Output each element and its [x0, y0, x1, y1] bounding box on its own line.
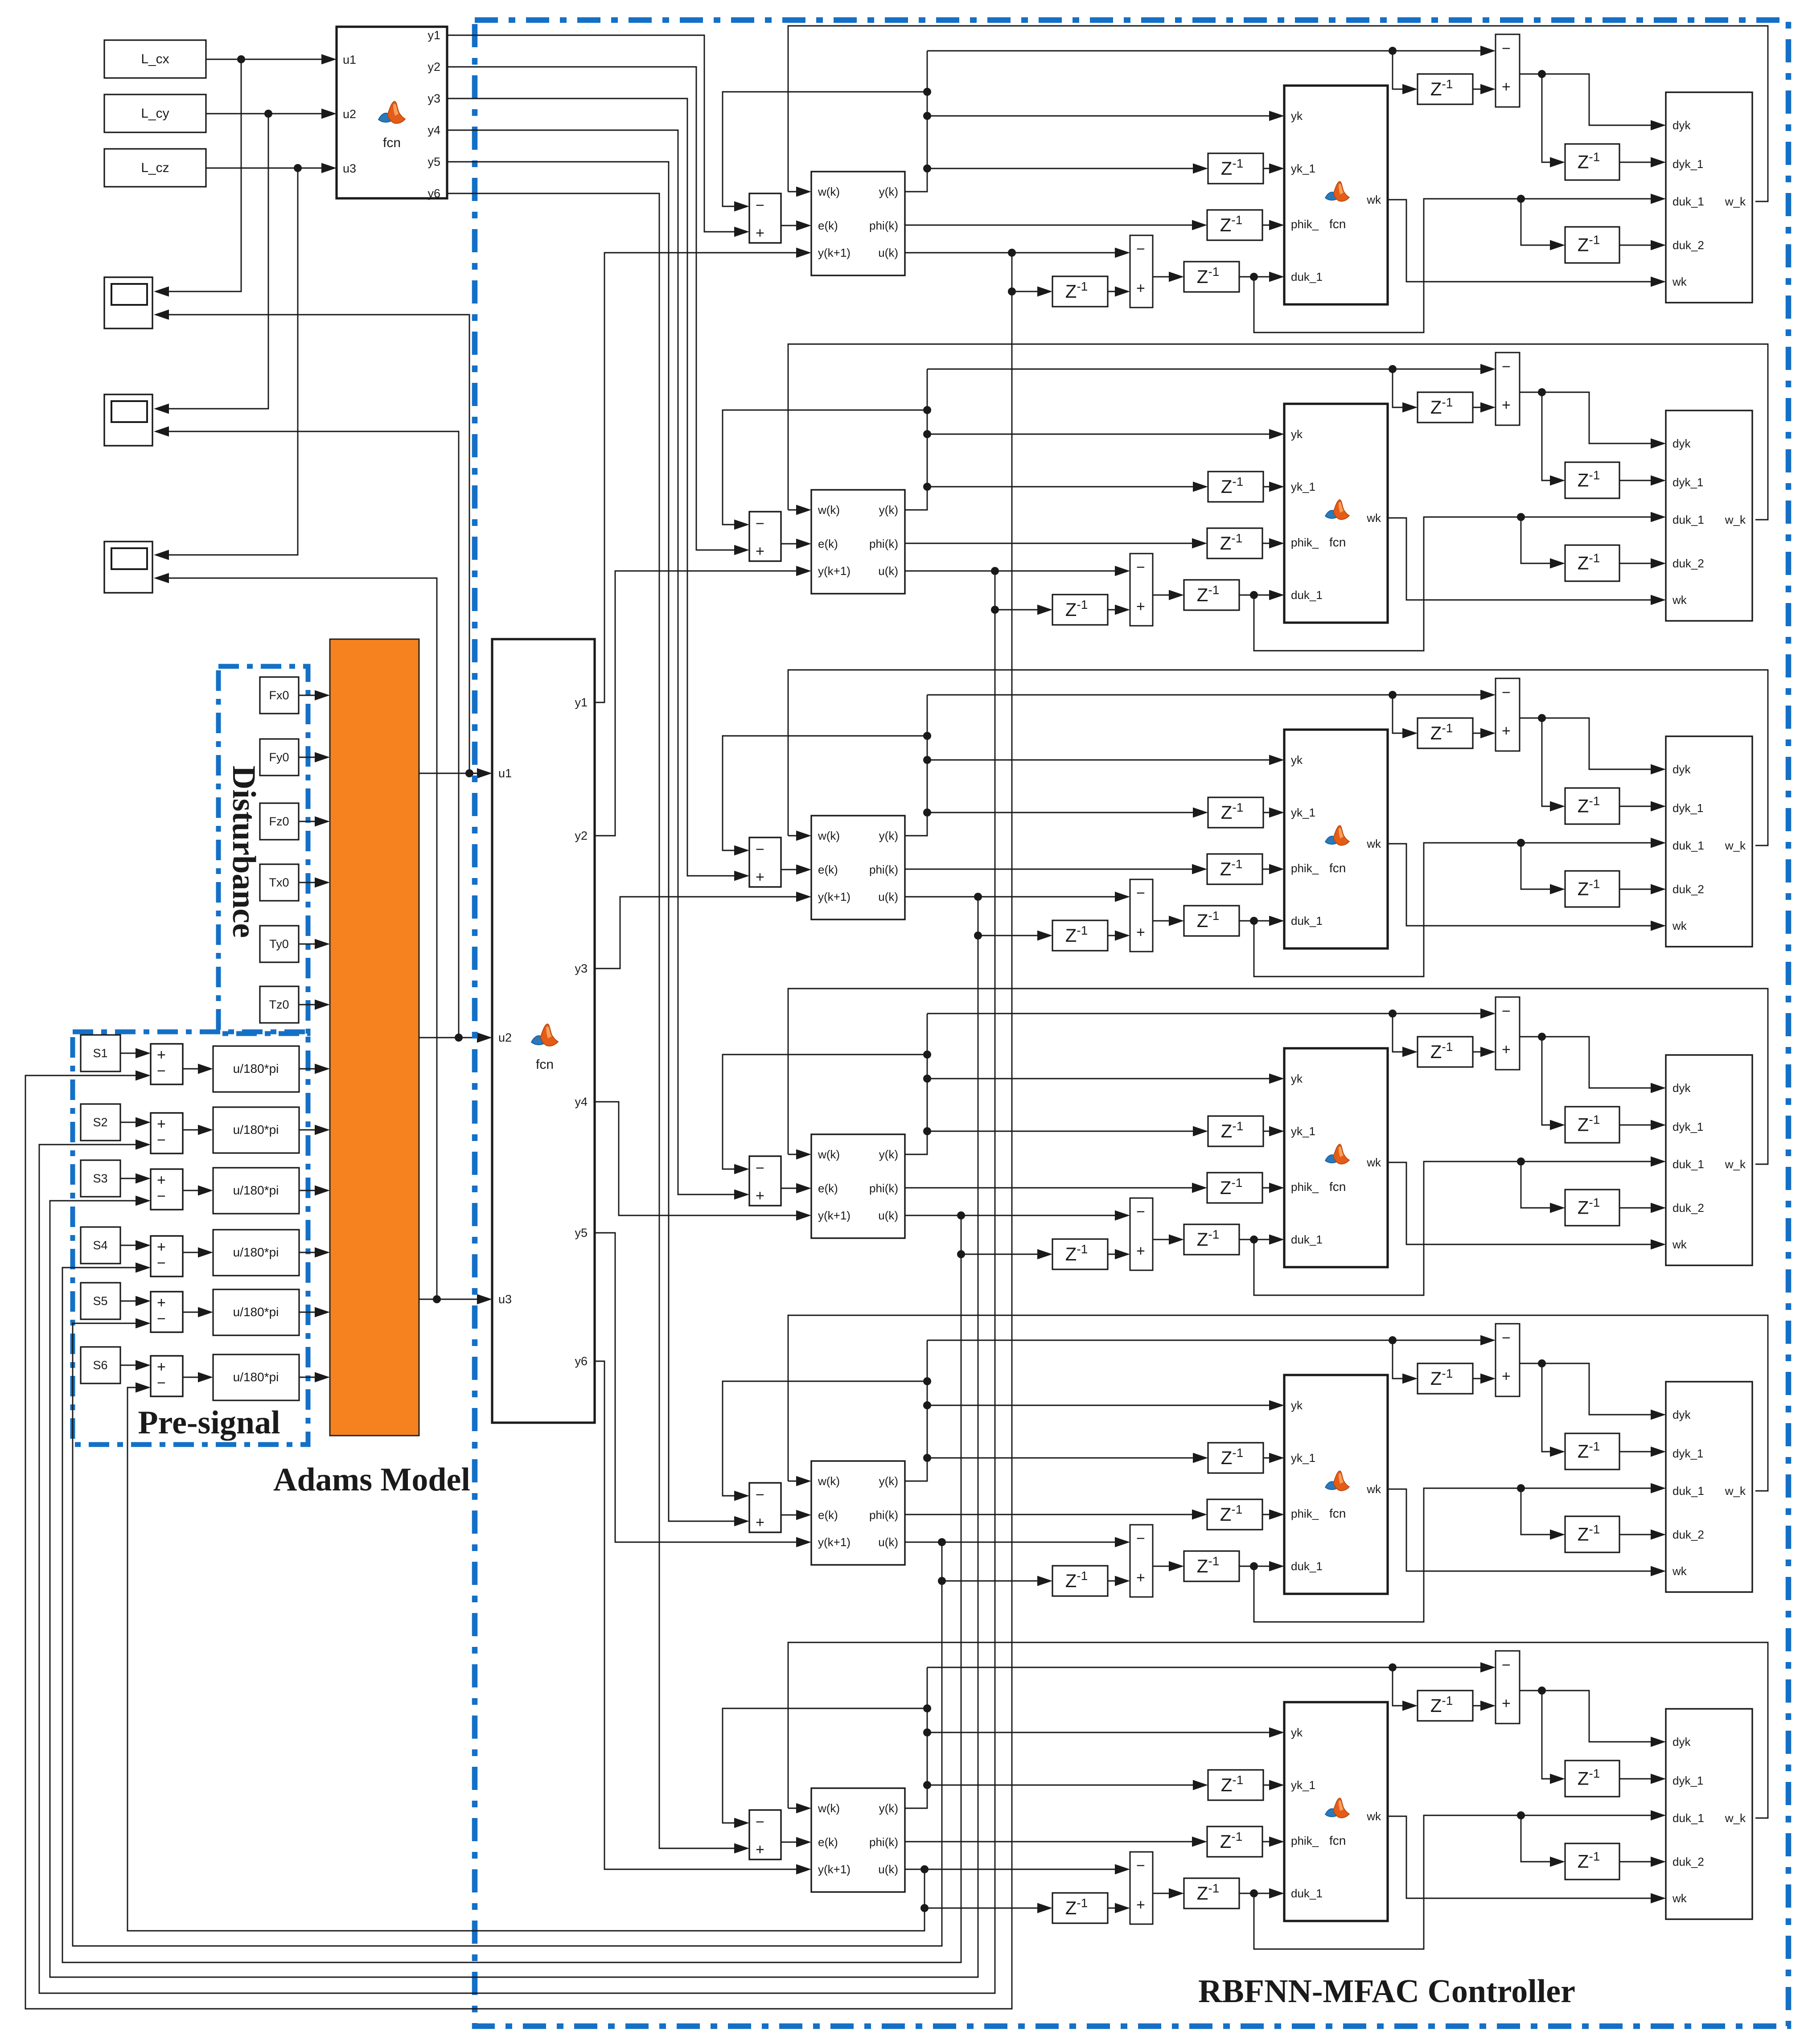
svg-text:dyk: dyk: [1673, 1081, 1691, 1095]
sum block row 1 dy: [1496, 34, 1520, 107]
svg-text:+: +: [1502, 78, 1511, 95]
junction row 1 u delay tap: [1008, 287, 1016, 296]
wire row 2 duk_2 delay to w_k: [1619, 563, 1663, 564]
svg-text:e(k): e(k): [818, 1835, 838, 1849]
svg-text:u(k): u(k): [878, 564, 898, 578]
svg-text:−: −: [756, 197, 764, 214]
svg-text:wk: wk: [1672, 1892, 1687, 1905]
wire row 3 y(k) to yk_1 delay: [927, 812, 1205, 813]
wire fcn1 y6 reference to row 6 sum +: [447, 193, 746, 1848]
delay block Z-1 row 2 (dyk_1): [1565, 462, 1619, 498]
svg-text:−: −: [1136, 1530, 1145, 1547]
svg-text:u1: u1: [498, 767, 512, 780]
wire row 1 delayed to top sum plus: [1393, 51, 1414, 89]
svg-text:duk_1: duk_1: [1291, 1233, 1323, 1246]
wire sum to gain S2: [183, 1129, 210, 1131]
wire row 1 u delay to du sum plus: [1108, 291, 1127, 292]
scope block Scope1: [104, 277, 152, 328]
RBFNN block phik_fcn row 3: [1284, 730, 1388, 948]
wire row 4 dy to dyk_1 delay: [1542, 1037, 1562, 1125]
wire row 1 duk_2 delay to w_k: [1619, 245, 1663, 246]
svg-text:−: −: [1136, 559, 1145, 576]
sum block row 5 error: [749, 1483, 781, 1532]
svg-text:phik_: phik_: [1291, 1834, 1319, 1847]
wire row 2 error to e(k): [781, 543, 808, 545]
junction row 1 yk tap: [923, 112, 931, 120]
wire row 3 y(k) to top sum minus: [927, 694, 1492, 696]
junction row 1 duk_1 tap: [1250, 273, 1258, 281]
junction on L_cz wire: [294, 164, 302, 172]
delay block Z-1 row 3 (u delay): [1052, 920, 1108, 951]
wire S3 to sum: [120, 1178, 148, 1179]
wire sum to gain S1: [183, 1068, 210, 1070]
scope block Scope3: [104, 542, 152, 593]
junction row 6 duk_2 tap: [1517, 1811, 1525, 1819]
wire gain S6 to Adams model: [299, 1377, 327, 1378]
svg-text:u(k): u(k): [878, 890, 898, 903]
wire S6 to sum: [120, 1365, 148, 1366]
svg-text:−: −: [1502, 684, 1511, 701]
svg-text:−: −: [1136, 1857, 1145, 1874]
svg-text:w_k: w_k: [1725, 1484, 1746, 1498]
wire L_cx to u1: [206, 59, 333, 60]
svg-text:wk: wk: [1672, 593, 1687, 607]
svg-text:y(k): y(k): [879, 829, 898, 842]
svg-text:−: −: [756, 1814, 764, 1831]
constant block Fx0: [260, 677, 299, 714]
svg-text:y2: y2: [427, 60, 440, 74]
svg-text:y5: y5: [575, 1226, 588, 1240]
MFAC block row 6: [811, 1788, 905, 1892]
wire row 2 y(k) to phik yk input: [927, 434, 1281, 435]
phik_fcn MATLAB logo row 3: [1325, 825, 1349, 846]
svg-text:S2: S2: [93, 1116, 107, 1129]
svg-text:fcn: fcn: [1329, 1506, 1346, 1520]
svg-text:+: +: [1502, 1368, 1511, 1385]
wire row 4 du to w_k duk_1: [1254, 1162, 1663, 1295]
MFAC block row 1: [811, 172, 905, 275]
junction row 4 duk_1 tap: [1250, 1235, 1258, 1244]
svg-text:−: −: [157, 1132, 166, 1149]
wire row 4 u(k) to du sum minus: [905, 1215, 1127, 1216]
junction row 2 duk_2 tap: [1517, 513, 1525, 521]
svg-text:Tx0: Tx0: [269, 876, 289, 889]
svg-text:y4: y4: [427, 123, 440, 137]
junction row 6 y(k) minus tap: [923, 1704, 931, 1712]
wire row 2 dy to dyk_1 delay: [1542, 392, 1562, 480]
svg-text:phik_: phik_: [1291, 536, 1319, 549]
weight update block w_k row 2: [1666, 410, 1752, 621]
junction row 3 y(k) minus tap: [923, 732, 931, 740]
svg-text:fcn: fcn: [383, 135, 401, 150]
svg-text:u/180*pi: u/180*pi: [233, 1370, 279, 1384]
delay block Z-1 row 6 (duk_2): [1565, 1843, 1619, 1880]
constant block S1: [81, 1035, 120, 1071]
wire gain S3 to Adams model: [299, 1190, 327, 1191]
delay block Z-1 row 1 (dyk_1): [1565, 144, 1619, 180]
svg-text:L_cz: L_cz: [141, 160, 169, 175]
wire fcn1 y3 reference to row 3 sum +: [447, 99, 746, 876]
wire row 6 phi delay to phik input: [1262, 1841, 1281, 1843]
delay block Z-1 row 4 (du delay): [1184, 1224, 1239, 1255]
wire row 6 y(k) to phik yk input: [927, 1732, 1281, 1733]
svg-text:e(k): e(k): [818, 219, 838, 232]
wire row 5 yk_1 delay to phik: [1263, 1457, 1281, 1459]
delay block Z-1 row 5 (y delay top): [1418, 1363, 1473, 1394]
wire row 6 y(k) to yk_1 delay: [927, 1785, 1205, 1786]
junction row 3 yk tap: [923, 756, 931, 764]
wire row 5 y(k) feedback riser: [905, 1340, 927, 1481]
svg-text:Fy0: Fy0: [269, 751, 289, 764]
svg-text:yk_1: yk_1: [1291, 1778, 1315, 1792]
delay block Z-1 row 5 (phi): [1207, 1499, 1262, 1530]
delay block Z-1 row 3 (yk_1): [1208, 797, 1263, 828]
junction row 1 u(k) bus tap: [1008, 249, 1016, 257]
svg-text:y(k): y(k): [879, 1802, 898, 1815]
wire L_cx tap to Scope1: [157, 59, 241, 291]
svg-text:y(k): y(k): [879, 1148, 898, 1161]
MFAC block row 2: [811, 490, 905, 594]
junction row 2 u(k) bus tap: [991, 567, 999, 575]
sum block for S3: [151, 1169, 183, 1210]
wire Tz0 to Adams model: [299, 1004, 327, 1006]
wire row 1 dyk_1 delay to w_k: [1619, 162, 1663, 163]
delay block Z-1 row 1 (duk_2): [1565, 227, 1619, 263]
svg-text:y6: y6: [575, 1354, 588, 1368]
junction row 4 dy tap: [1538, 1033, 1546, 1041]
svg-text:duk_1: duk_1: [1673, 195, 1704, 208]
wire Adams u1 to fcn2: [419, 773, 489, 774]
svg-text:+: +: [157, 1047, 166, 1063]
delay block Z-1 row 4 (yk_1): [1208, 1116, 1263, 1146]
svg-text:fcn: fcn: [1329, 1834, 1346, 1847]
wire row 6 delayed to top sum plus: [1393, 1667, 1414, 1706]
delay block Z-1 row 4 (dyk_1): [1565, 1107, 1619, 1143]
delay block Z-1 row 2 (phi): [1207, 528, 1262, 558]
svg-text:fcn: fcn: [536, 1057, 554, 1072]
junction row 6 u(k) bus tap: [920, 1865, 929, 1873]
sum block for S2: [151, 1113, 183, 1153]
gain block u/180*pi for S1: [213, 1046, 299, 1092]
wire row 6 u(k) to du sum minus: [905, 1869, 1127, 1870]
svg-text:S3: S3: [93, 1172, 107, 1185]
wire row 4 w_k feedback loop: [788, 989, 1768, 1164]
svg-text:u/180*pi: u/180*pi: [233, 1305, 279, 1319]
wire row 6 phik wk to w_k wk: [1388, 1816, 1663, 1898]
wire row 3 dy to dyk: [1542, 718, 1663, 769]
wire row 5 u(k) to u delay: [942, 1542, 1049, 1581]
wire row 4 phi(k) to delay: [905, 1187, 1204, 1189]
wire row 2 dy to dyk: [1542, 392, 1663, 443]
wire row 2 y(k) feedback riser: [905, 369, 927, 510]
sum block row 5 du: [1130, 1525, 1153, 1597]
sum block row 5 dy: [1496, 1324, 1520, 1396]
svg-text:y(k+1): y(k+1): [818, 1863, 851, 1876]
svg-text:fcn: fcn: [1329, 861, 1346, 875]
svg-text:duk_2: duk_2: [1673, 557, 1704, 570]
wire row 1 phi(k) to delay: [905, 225, 1204, 226]
wire sum to gain S4: [183, 1252, 210, 1253]
svg-text:+: +: [1136, 924, 1145, 941]
wire fcn1 y4 reference to row 4 sum +: [447, 130, 746, 1194]
wire row 1 y(k) feedback riser: [905, 51, 927, 192]
wire row 6 phi(k) to delay: [905, 1841, 1204, 1843]
MFAC block row 4: [811, 1134, 905, 1238]
wire row 4 phik wk to w_k wk: [1388, 1162, 1663, 1244]
wire row 2 dyk_1 delay to w_k: [1619, 480, 1663, 481]
wire row 5 y(k) to error sum minus: [723, 1381, 927, 1496]
svg-text:w(k): w(k): [818, 503, 840, 517]
wire row 6 dyk_1 delay to w_k: [1619, 1778, 1663, 1780]
svg-text:−: −: [756, 515, 764, 532]
delay block Z-1 row 1 (du delay): [1184, 262, 1239, 292]
wire L_cz tap to Scope3: [157, 168, 298, 555]
junction row 3 top sum tap: [1389, 691, 1397, 699]
weight update block w_k row 3: [1666, 736, 1752, 947]
delay block Z-1 row 4 (y delay top): [1418, 1037, 1473, 1067]
delay block Z-1 row 3 (du delay): [1184, 906, 1239, 936]
junction row 4 y(k) minus tap: [923, 1051, 931, 1059]
RBFNN block phik_fcn row 4: [1284, 1048, 1388, 1267]
delay block Z-1 row 2 (du delay): [1184, 580, 1239, 610]
svg-text:+: +: [756, 869, 764, 886]
weight update block w_k row 1: [1666, 92, 1752, 303]
svg-text:u/180*pi: u/180*pi: [233, 1183, 279, 1197]
wire row 6 u delay to du sum plus: [1108, 1908, 1127, 1909]
wire fcn2 y4 to row 4 y(k+1): [595, 1102, 808, 1215]
sum block row 6 du: [1130, 1852, 1153, 1924]
delay block Z-1 row 2 (duk_2): [1565, 545, 1619, 581]
wire row 3 error to e(k): [781, 869, 808, 870]
svg-text:−: −: [157, 1310, 166, 1327]
svg-text:dyk_1: dyk_1: [1673, 1120, 1703, 1133]
svg-text:yk: yk: [1291, 427, 1303, 441]
svg-text:Ty0: Ty0: [269, 937, 289, 951]
delay block Z-1 row 5 (u delay): [1052, 1566, 1108, 1596]
wire row 6 yk_1 delay to phik: [1263, 1785, 1281, 1786]
junction row 6 top sum tap: [1389, 1663, 1397, 1671]
wire row 3 du to w_k duk_1: [1254, 843, 1663, 977]
svg-text:phik_: phik_: [1291, 218, 1319, 231]
svg-text:y3: y3: [427, 92, 440, 105]
wire row 5 w_k feedback loop: [788, 1315, 1768, 1491]
sum block for S1: [151, 1044, 183, 1084]
svg-text:e(k): e(k): [818, 1508, 838, 1522]
wire row 5 dyk_1 delay to w_k: [1619, 1451, 1663, 1453]
wire row 4 error to e(k): [781, 1188, 808, 1189]
svg-text:y4: y4: [575, 1095, 588, 1108]
svg-text:u(k): u(k): [878, 1209, 898, 1222]
weight update block w_k row 6: [1666, 1709, 1752, 1919]
wire row 6 y(k) to error sum minus: [723, 1708, 927, 1823]
wire row 5 du sum to delay: [1153, 1566, 1181, 1567]
svg-text:u2: u2: [498, 1031, 512, 1044]
wire row 2 phik wk to w_k wk: [1388, 518, 1663, 600]
wire row 6 dy to dyk_1 delay: [1542, 1691, 1562, 1779]
svg-text:duk_1: duk_1: [1673, 1157, 1704, 1171]
wire row 6 du to w_k duk_1: [1254, 1815, 1663, 1949]
wire row 1 u(k) to u delay: [1012, 253, 1049, 291]
svg-text:Disturbance: Disturbance: [226, 766, 262, 938]
svg-text:+: +: [157, 1239, 166, 1256]
svg-text:−: −: [1502, 358, 1511, 375]
svg-text:dyk_1: dyk_1: [1673, 1774, 1703, 1787]
wire u3 feedback to Scope3: [157, 578, 437, 1299]
svg-text:fcn: fcn: [1329, 1180, 1346, 1194]
svg-text:y(k): y(k): [879, 1474, 898, 1488]
wire row 2 phi(k) to delay: [905, 543, 1204, 544]
wire row 3 y(k) feedback riser: [905, 695, 927, 836]
svg-text:w(k): w(k): [818, 1148, 840, 1161]
sum block row 6 error: [749, 1810, 781, 1859]
svg-text:wk: wk: [1366, 837, 1381, 850]
svg-text:phi(k): phi(k): [869, 219, 898, 232]
sum block row 1 du: [1130, 235, 1153, 308]
delay block Z-1 row 2 (yk_1): [1208, 472, 1263, 502]
wire Fy0 to Adams model: [299, 757, 327, 758]
svg-text:duk_1: duk_1: [1291, 270, 1323, 283]
svg-text:phik_: phik_: [1291, 862, 1319, 875]
delay block Z-1 row 5 (duk_2): [1565, 1516, 1619, 1552]
wire row 2 Z-1 to top sum plus: [1473, 407, 1492, 408]
svg-text:duk_2: duk_2: [1673, 1528, 1704, 1541]
junction row 3 duk_2 tap: [1517, 839, 1525, 847]
svg-text:wk: wk: [1672, 1238, 1687, 1251]
wire row 6 duk_2 delay feed: [1521, 1815, 1562, 1862]
svg-text:y(k+1): y(k+1): [818, 564, 851, 578]
wire row 4 yk_1 delay to phik: [1263, 1131, 1281, 1132]
wire row 4 dy out: [1520, 1036, 1542, 1038]
wire row 3 u(k) feedback to pre-signal S3: [50, 936, 978, 1977]
wire row 1 error to e(k): [781, 225, 808, 226]
wire row 3 delayed to top sum plus: [1393, 695, 1414, 733]
svg-text:e(k): e(k): [818, 1182, 838, 1195]
constant block S2: [81, 1104, 120, 1141]
gain block u/180*pi for S3: [213, 1168, 299, 1214]
wire row 4 du sum to delay: [1153, 1239, 1181, 1240]
svg-text:wk: wk: [1366, 1482, 1381, 1496]
wire row 4 dyk_1 delay to w_k: [1619, 1125, 1663, 1126]
junction u3 scope tap: [433, 1295, 441, 1303]
svg-text:duk_2: duk_2: [1673, 1201, 1704, 1215]
wire row 5 duk_2 delay to w_k: [1619, 1534, 1663, 1535]
wire row 4 duk_2 delay to w_k: [1619, 1207, 1663, 1209]
wire row 5 dy to dyk: [1542, 1363, 1663, 1415]
MFAC block row 5: [811, 1461, 905, 1565]
RBFNN block phik_fcn row 5: [1284, 1375, 1388, 1594]
svg-text:u/180*pi: u/180*pi: [233, 1245, 279, 1259]
wire row 2 u(k) to u delay: [995, 571, 1049, 610]
svg-text:w_k: w_k: [1725, 1811, 1746, 1825]
wire row 1 du delay to phik duk_1: [1239, 276, 1281, 278]
svg-text:u(k): u(k): [878, 1535, 898, 1549]
constant block S3: [81, 1160, 120, 1197]
sum block row 2 du: [1130, 554, 1153, 626]
svg-text:y1: y1: [575, 696, 588, 709]
svg-text:wk: wk: [1366, 1156, 1381, 1169]
wire row 4 Z-1 to top sum plus: [1473, 1051, 1492, 1053]
constant block Ty0: [260, 926, 299, 962]
constant block L_cz: [104, 149, 206, 187]
delay block Z-1 row 6 (yk_1): [1208, 1770, 1263, 1800]
weight update block w_k row 5: [1666, 1382, 1752, 1592]
delay block Z-1 row 1 (y delay top): [1418, 74, 1473, 104]
svg-text:L_cy: L_cy: [141, 106, 169, 121]
svg-text:+: +: [1502, 722, 1511, 739]
wire row 5 duk_2 delay feed: [1521, 1488, 1562, 1535]
wire row 4 y(k) to yk_1 delay: [927, 1131, 1205, 1132]
junction row 2 u delay tap: [991, 606, 999, 614]
wire row 4 y(k) to phik yk input: [927, 1078, 1281, 1079]
svg-text:y(k+1): y(k+1): [818, 1209, 851, 1222]
svg-text:dyk_1: dyk_1: [1673, 801, 1703, 815]
svg-text:u1: u1: [343, 53, 356, 66]
wire fcn2 y1 to row 1 y(k+1): [595, 253, 808, 702]
wire row 5 phi(k) to delay: [905, 1514, 1204, 1515]
svg-text:yk_1: yk_1: [1291, 480, 1315, 493]
svg-text:duk_1: duk_1: [1291, 1560, 1323, 1573]
svg-text:wk: wk: [1366, 193, 1381, 206]
gain block u/180*pi for S6: [213, 1354, 299, 1400]
wire row 6 w_k feedback loop: [788, 1642, 1768, 1818]
svg-text:RBFNN-MFAC Controller: RBFNN-MFAC Controller: [1198, 1973, 1575, 2010]
junction row 6 yk_1 tap: [923, 1781, 931, 1789]
svg-text:yk_1: yk_1: [1291, 1451, 1315, 1465]
wire row 2 du to w_k duk_1: [1254, 517, 1663, 651]
svg-text:u3: u3: [498, 1293, 512, 1306]
wire row 3 y(k) to error sum minus: [723, 736, 927, 850]
svg-text:w(k): w(k): [818, 829, 840, 842]
svg-text:phik_: phik_: [1291, 1507, 1319, 1520]
fcn1 MATLAB logo: [378, 101, 405, 123]
svg-text:+: +: [756, 543, 764, 560]
junction row 3 u(k) bus tap: [974, 893, 982, 901]
svg-text:−: −: [1502, 1657, 1511, 1674]
svg-text:u(k): u(k): [878, 1863, 898, 1876]
delay block Z-1 row 1 (yk_1): [1208, 153, 1263, 184]
wire row 3 yk_1 delay to phik: [1263, 812, 1281, 813]
svg-text:y(k): y(k): [879, 503, 898, 517]
svg-text:+: +: [157, 1294, 166, 1311]
svg-text:−: −: [756, 1486, 764, 1503]
wire row 1 u(k) feedback to pre-signal S1: [25, 291, 1012, 2009]
Disturbance dashed boundary: [218, 666, 308, 1034]
wire L_cy tap to Scope2: [157, 114, 268, 409]
wire row 2 duk_2 delay feed: [1521, 517, 1562, 563]
delay block Z-1 row 1 (u delay): [1052, 276, 1108, 307]
svg-text:Tz0: Tz0: [269, 998, 289, 1011]
delay block Z-1 row 5 (du delay): [1184, 1551, 1239, 1581]
wire row 3 y(k) to phik yk input: [927, 759, 1281, 761]
svg-text:+: +: [756, 1187, 764, 1204]
constant block Tx0: [260, 864, 299, 901]
wire row 4 y(k) to error sum minus: [723, 1055, 927, 1169]
wire row 5 du to w_k duk_1: [1254, 1488, 1663, 1622]
wire row 2 y(k) to error sum minus: [723, 410, 927, 525]
junction row 3 yk_1 tap: [923, 809, 931, 817]
wire row 2 y(k) to yk_1 delay: [927, 486, 1205, 488]
wire row 6 Z-1 to top sum plus: [1473, 1705, 1492, 1707]
gain block u/180*pi for S4: [213, 1230, 299, 1276]
svg-text:yk: yk: [1291, 1399, 1303, 1412]
svg-text:+: +: [1136, 1896, 1145, 1913]
wire S2 to sum: [120, 1122, 148, 1123]
delay block Z-1 row 6 (y delay top): [1418, 1691, 1473, 1721]
wire row 2 delayed to top sum plus: [1393, 369, 1414, 407]
wire S5 to sum: [120, 1301, 148, 1302]
wire row 4 du delay to phik duk_1: [1239, 1239, 1281, 1240]
delay block Z-1 row 6 (du delay): [1184, 1878, 1239, 1909]
